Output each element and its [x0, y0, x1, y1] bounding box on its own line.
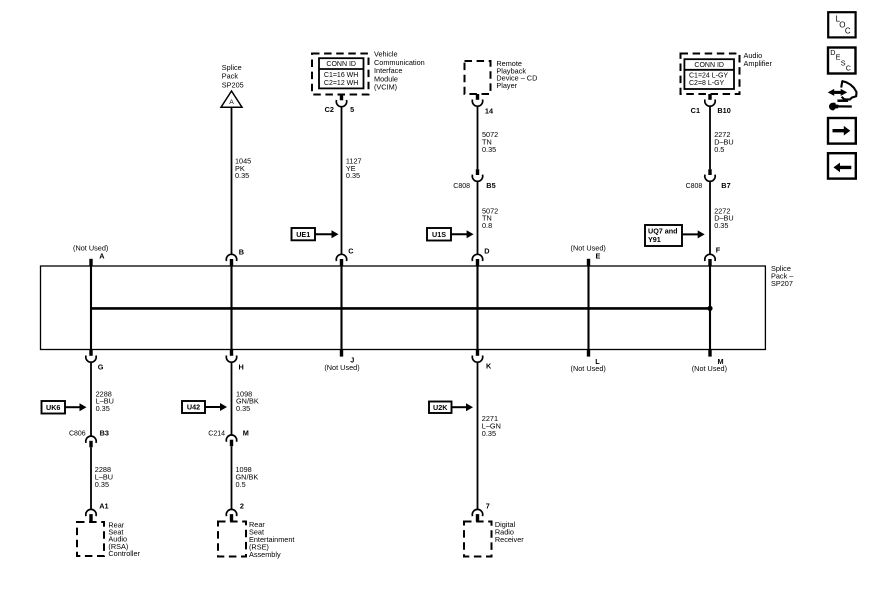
svg-text:2: 2	[240, 502, 244, 511]
terminal J stub (not used)	[340, 350, 343, 357]
svg-text:A1: A1	[99, 501, 108, 510]
wire 1127 YE from VCIM to terminal C	[341, 107, 343, 255]
VCIM module dashed box	[312, 54, 369, 95]
svg-text:7: 7	[486, 502, 490, 511]
wire 2288 L-BU upper segment below terminal G	[90, 362, 92, 436]
sidebar forward arrow icon box	[828, 118, 856, 144]
audio amplifier pin connector C1-B10	[708, 94, 711, 100]
svg-text:(Not Used): (Not Used)	[571, 364, 606, 373]
svg-text:CONN ID: CONN ID	[694, 62, 724, 69]
column wire E-L inside SP207	[587, 266, 589, 350]
wire 5072 TN 0.8 lower segment	[477, 181, 479, 254]
svg-text:C808: C808	[686, 183, 703, 190]
svg-text:(Not Used): (Not Used)	[692, 364, 727, 373]
svg-text:CONN ID: CONN ID	[326, 61, 356, 68]
svg-text:B: B	[239, 248, 244, 257]
svg-text:C: C	[846, 64, 851, 73]
svg-text:Controller: Controller	[108, 549, 140, 558]
svg-text:C214: C214	[208, 430, 225, 437]
inline connector C806 B3	[86, 436, 96, 443]
terminal C connector at SP207	[336, 254, 346, 261]
svg-text:UE1: UE1	[296, 230, 310, 239]
svg-text:C806: C806	[69, 431, 86, 438]
sidebar repair icon: double arrow, outline shape and wrench	[828, 81, 857, 110]
svg-text:0.35: 0.35	[482, 145, 496, 154]
bus bar inside SP207	[91, 307, 710, 310]
terminal M stub (not used)	[708, 350, 711, 357]
inline connector C808 B7	[708, 169, 711, 175]
column wire B-H inside SP207	[230, 266, 232, 350]
svg-text:C808: C808	[453, 183, 470, 190]
wire 2271 L-GN below terminal K	[477, 362, 479, 509]
svg-text:C2=8 L-GY: C2=8 L-GY	[689, 80, 725, 87]
svg-text:Y91: Y91	[648, 235, 661, 244]
column wire D-K inside SP207	[476, 266, 478, 350]
svg-text:(Not Used): (Not Used)	[571, 244, 606, 253]
arrow from U2K to wire	[452, 406, 468, 408]
terminal H connector under SP207	[230, 350, 233, 356]
svg-text:G: G	[98, 363, 104, 372]
svg-text:SP205: SP205	[222, 80, 244, 89]
svg-text:A: A	[99, 252, 105, 261]
remote playback device pin connector 14	[476, 94, 479, 100]
terminal B connector at SP207	[226, 254, 236, 261]
svg-text:A: A	[229, 99, 234, 106]
svg-text:D: D	[484, 247, 489, 256]
svg-text:K: K	[486, 362, 492, 371]
svg-text:C1: C1	[691, 106, 700, 115]
wire 2272 D-BU 0.5 upper segment	[709, 106, 711, 169]
wire 1098 GN/BK lower segment	[231, 446, 233, 509]
audio amplifier conn id box	[684, 59, 734, 89]
svg-text:C2: C2	[325, 105, 334, 114]
svg-text:14: 14	[485, 106, 494, 115]
svg-text:Player: Player	[496, 81, 517, 90]
terminal K connector under SP207	[476, 350, 479, 356]
svg-text:UK6: UK6	[46, 403, 60, 412]
terminal G connector under SP207	[89, 350, 92, 356]
arrow from UQ7 box to wire	[682, 233, 699, 235]
inline connector C808 B5	[476, 169, 479, 175]
DTC box U2K	[429, 402, 452, 414]
svg-text:0.35: 0.35	[482, 429, 496, 438]
svg-text:B7: B7	[721, 181, 730, 190]
DTC box U42	[182, 401, 205, 413]
column wire F-M inside SP207	[709, 266, 711, 350]
svg-text:H: H	[239, 363, 244, 372]
svg-text:C2=12 WH: C2=12 WH	[324, 80, 358, 87]
svg-text:(Not Used): (Not Used)	[324, 363, 359, 372]
svg-text:0.35: 0.35	[346, 171, 360, 180]
terminal D connector at SP207	[472, 254, 482, 261]
sidebar DESC icon box	[828, 48, 856, 74]
svg-text:U2K: U2K	[433, 403, 448, 412]
digital radio receiver dashed box	[464, 522, 492, 557]
svg-text:0.5: 0.5	[714, 145, 724, 154]
svg-text:F: F	[716, 246, 721, 255]
VCIM pin connector C2-5	[340, 95, 343, 101]
svg-text:0.35: 0.35	[236, 404, 250, 413]
DTC box UE1	[292, 228, 316, 240]
svg-text:C1=16 WH: C1=16 WH	[324, 72, 358, 79]
wire 2288 L-BU lower segment	[90, 447, 92, 509]
arrow from UE1 to wire	[315, 233, 333, 235]
svg-text:U42: U42	[187, 403, 200, 412]
svg-text:0.8: 0.8	[482, 221, 492, 230]
junction dot at terminal F column	[707, 306, 712, 311]
splice pack SP205 triangle symbol	[221, 91, 242, 107]
svg-text:5: 5	[350, 105, 354, 114]
terminal A stub (not used)	[89, 259, 92, 266]
wire 1098 GN/BK upper segment below terminal H	[231, 362, 233, 435]
DTC box U1S	[427, 228, 451, 241]
RSE assembly dashed box	[218, 522, 246, 557]
inline connector C214 M	[226, 435, 236, 442]
splice pack SP207 outline box	[41, 266, 766, 350]
svg-text:SP207: SP207	[771, 279, 793, 288]
column wire C-J inside SP207	[340, 266, 342, 350]
svg-text:Receiver: Receiver	[495, 535, 524, 544]
audio amplifier dashed box	[681, 54, 740, 95]
svg-text:0.35: 0.35	[714, 221, 728, 230]
svg-text:UQ7 and: UQ7 and	[648, 226, 678, 235]
svg-text:E: E	[596, 252, 601, 261]
RSA controller dashed box	[77, 522, 104, 556]
svg-text:B10: B10	[717, 106, 730, 115]
svg-text:M: M	[243, 428, 249, 437]
svg-text:U1S: U1S	[432, 230, 446, 239]
svg-text:B3: B3	[100, 429, 109, 438]
svg-text:B5: B5	[486, 181, 495, 190]
remote playback device dashed box	[465, 61, 491, 94]
DTC box UK6	[42, 401, 66, 414]
arrow from U1S to wire	[451, 233, 468, 235]
svg-text:C1=24 L-GY: C1=24 L-GY	[689, 73, 728, 80]
wire 5072 TN 0.35 upper segment	[477, 106, 479, 169]
svg-text:C: C	[348, 247, 354, 256]
wire 1045 PK from SP205 to terminal B	[231, 107, 233, 254]
terminal F connector at SP207	[705, 254, 715, 261]
svg-text:Amplifier: Amplifier	[744, 59, 773, 68]
svg-text:Assembly: Assembly	[249, 550, 281, 559]
terminal L stub (not used)	[587, 350, 590, 357]
DTC box UQ7 and Y91	[645, 225, 682, 246]
svg-text:(VCIM): (VCIM)	[374, 83, 397, 92]
wire 2272 D-BU 0.35 lower segment	[709, 181, 711, 254]
VCIM conn id box	[319, 58, 364, 88]
terminal E stub (not used)	[587, 259, 590, 266]
sidebar back arrow icon box	[828, 153, 856, 178]
svg-text:0.35: 0.35	[96, 404, 110, 413]
sidebar LOC icon box	[828, 12, 855, 37]
arrow from UK6 to wire	[65, 406, 81, 408]
svg-text:0.35: 0.35	[235, 171, 249, 180]
svg-text:0.35: 0.35	[95, 480, 109, 489]
svg-text:0.5: 0.5	[236, 480, 246, 489]
svg-text:C: C	[845, 27, 851, 36]
column wire A-G inside SP207	[90, 266, 92, 350]
arrow from U42 to wire	[205, 406, 222, 408]
